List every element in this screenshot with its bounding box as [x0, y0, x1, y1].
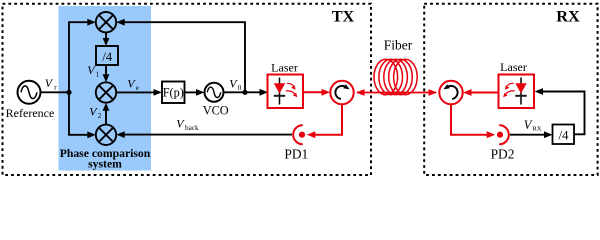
- wire feedback from V0 to top mixer: [124, 22, 245, 92]
- RX dashed box: [424, 4, 597, 175]
- wire reference to junction: [41, 91, 70, 93]
- label Ve: [127, 77, 139, 92]
- label VRX: [524, 118, 542, 133]
- wire TX circulator down to PD1: [315, 104, 343, 135]
- node junction at reference output: [66, 90, 71, 95]
- circulator RX: [439, 81, 462, 104]
- label Vr: [45, 76, 58, 91]
- laser diode TX: [268, 75, 304, 109]
- svg-text:Laser: Laser: [271, 61, 298, 75]
- photodiode PD1: [293, 125, 305, 144]
- phase comparison system highlight region: [59, 6, 152, 171]
- laser diode RX: [499, 75, 535, 109]
- wire junction down to bottom mixer: [69, 92, 88, 134]
- circulator TX: [330, 81, 353, 104]
- wire VCO to laser, V0: [224, 91, 261, 93]
- svg-text:VCO: VCO: [203, 104, 229, 118]
- svg-text:/4: /4: [102, 50, 113, 64]
- svg-text:0: 0: [238, 84, 242, 92]
- label V1: [87, 63, 99, 78]
- wire bottom mixer to middle mixer, V2: [105, 110, 107, 125]
- wire RX laser to circulator: [471, 92, 499, 94]
- svg-text:system: system: [88, 158, 122, 171]
- divider /4 box (TX): [96, 46, 118, 65]
- svg-text:PD2: PD2: [491, 146, 515, 161]
- phase comparison system label: [60, 147, 151, 171]
- loop filter F(p) box: [162, 82, 185, 104]
- wire junction up to top mixer: [69, 22, 88, 92]
- VCO oscillator: [205, 83, 224, 102]
- wire RX circulator down to PD2: [451, 104, 487, 135]
- mixer M1 (top): [96, 12, 116, 32]
- svg-text:F(p): F(p): [163, 86, 184, 100]
- fiber coil: [374, 59, 417, 95]
- label Vback: [176, 117, 199, 132]
- svg-text:Laser: Laser: [500, 60, 527, 74]
- svg-text:2: 2: [98, 112, 102, 120]
- label V0: [229, 77, 241, 92]
- wire /4 feedback to RX laser: [542, 92, 585, 135]
- wire /4 to middle mixer, V1: [105, 65, 107, 75]
- svg-text:RX: RX: [556, 7, 580, 26]
- svg-text:e: e: [136, 84, 139, 92]
- svg-text:1: 1: [96, 71, 100, 79]
- mixer M2 (middle): [96, 82, 116, 102]
- label V2: [89, 105, 101, 120]
- wire top mixer to /4 divider: [105, 32, 107, 39]
- svg-text:back: back: [185, 124, 199, 132]
- TX dashed box: [3, 4, 372, 175]
- mixer M3 (bottom): [96, 125, 116, 145]
- photodiode PD2: [497, 125, 509, 144]
- node junction at V0: [242, 90, 247, 95]
- wire Vback from PD1 to bottom mixer: [124, 134, 292, 136]
- wire F(p) to VCO: [185, 91, 198, 93]
- reference source: [18, 81, 41, 104]
- wire PD2 to /4 divider, VRX: [510, 134, 545, 136]
- wire middle mixer to F(p), Ve: [116, 91, 154, 93]
- wire laser to TX circulator: [303, 91, 323, 93]
- svg-text:PD1: PD1: [284, 146, 308, 161]
- fiber bidirectional line: [357, 92, 436, 94]
- divider /4 box (RX): [553, 125, 575, 145]
- svg-text:Fiber: Fiber: [384, 38, 413, 53]
- svg-text:RX: RX: [532, 125, 541, 132]
- svg-text:Reference: Reference: [6, 106, 55, 120]
- svg-text:/4: /4: [558, 127, 569, 142]
- svg-text:TX: TX: [332, 7, 355, 26]
